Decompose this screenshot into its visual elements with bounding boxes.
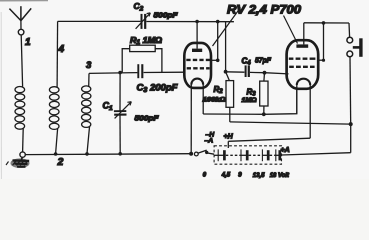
svg-text:100kΩ: 100kΩ [203, 97, 226, 104]
svg-text:4: 4 [58, 44, 65, 55]
tube V2 grid row 2 [289, 66, 314, 68]
wire grid line left segment [89, 72, 137, 75]
wire R2 to +A rail [230, 122, 351, 124]
svg-text:C4: C4 [242, 57, 252, 67]
ground [6, 157, 30, 168]
node R3 top [263, 71, 267, 75]
node C1 top [118, 71, 122, 75]
node g2 stub V2 [322, 59, 325, 62]
wire top feedback wire right of C2 [146, 21, 234, 23]
svg-text:57pF: 57pF [255, 56, 271, 65]
wire C4 junction to tube V2 grid [265, 73, 289, 74]
node g2 riser top V2 [322, 21, 326, 25]
wire +A from battery [282, 153, 351, 155]
resistor R2 100k [226, 72, 234, 122]
svg-text:RV 2,4 P700: RV 2,4 P700 [227, 3, 301, 17]
tube V1 envelope [184, 43, 211, 88]
svg-text:500pF: 500pF [154, 11, 178, 20]
terminal circle (earth terminal) [20, 152, 25, 157]
node g2 stub [216, 59, 220, 63]
wire g2 stub V2 [318, 59, 324, 61]
tube V2 filament left leg [296, 84, 298, 114]
tube V1 grid row 1 [186, 59, 210, 61]
wire +H rail to tube V2 right leg [228, 138, 310, 141]
svg-text:+H: +H [224, 134, 234, 141]
scan artifact: left edge line [0, 12, 2, 179]
tube V2 filament right leg [309, 84, 311, 138]
tube V1 anode lead [196, 22, 198, 49]
wire g2 riser to feedback wire [217, 22, 219, 61]
pointer line to tube V1 [213, 8, 241, 47]
svg-text:–A: –A [205, 138, 214, 145]
svg-text:R2: R2 [214, 85, 224, 95]
capacitor C2 variable 500pF [136, 13, 151, 29]
node R3 bottom on filament bus [262, 112, 266, 116]
wire filament bus V1 to V2 [203, 89, 297, 114]
node tube V1 leg on bus [189, 152, 193, 156]
resistor R1 1M [122, 45, 162, 72]
tube V1 filament left leg to ground bus [190, 84, 192, 154]
wire anode branch down to R2/C4 [225, 22, 227, 72]
pointer line to tube V2 [284, 16, 298, 44]
wire g2 riser V2 [323, 23, 325, 60]
wire coil3 top lead [88, 73, 90, 87]
svg-text:13,5: 13,5 [253, 173, 265, 179]
svg-text:C1: C1 [103, 101, 114, 113]
tube V2 anode bar [296, 44, 308, 47]
battery cells [214, 149, 281, 161]
wire coil4 top lead from feedback wire [56, 21, 59, 87]
wire ground bus [25, 153, 191, 156]
tube V1 filament right leg [202, 84, 204, 115]
svg-text:0: 0 [203, 172, 207, 178]
wire g2 stub tube V1 [211, 59, 218, 61]
tube V1 anode bar [192, 49, 202, 52]
tube V1 filament arch [191, 79, 203, 85]
node g2 riser top [216, 20, 220, 24]
node R2/C4 junction [224, 70, 228, 74]
svg-text:1MΩ: 1MΩ [242, 97, 257, 104]
inductor antenna coil [15, 35, 25, 152]
node anode lead on feedback wire [195, 20, 199, 24]
svg-text:9: 9 [238, 172, 242, 178]
scan artifact: top edge smudge [0, 0, 48, 2]
wire anode wire V2 to phones [304, 22, 349, 24]
headphones jack [347, 23, 361, 124]
svg-text:R1 1MΩ: R1 1MΩ [130, 36, 163, 46]
svg-text:4,5: 4,5 [221, 172, 231, 178]
svg-text:C2: C2 [134, 1, 144, 13]
wire +A riser [350, 124, 352, 153]
svg-text:2: 2 [57, 156, 64, 168]
tube V1 grid row 2 [187, 67, 210, 69]
node coil4 bottom [54, 152, 58, 156]
tube V2 grid row 1 [289, 58, 316, 60]
capacitor C4 57pF [226, 65, 265, 77]
wire top feedback wire left of C2 [58, 20, 141, 22]
tube V2 envelope [287, 40, 319, 89]
svg-text:3: 3 [86, 60, 92, 71]
tube V2 anode lead [303, 23, 305, 45]
antenna [9, 6, 31, 35]
wire grid line right segment to tube V1 [144, 71, 185, 73]
svg-text:C3 200pF: C3 200pF [137, 83, 178, 95]
node C1 bottom [118, 152, 122, 156]
inductor grid coil 3 [82, 86, 92, 154]
node coil3 bottom [85, 152, 89, 156]
switch [194, 150, 214, 156]
svg-text:500pF: 500pF [135, 114, 159, 123]
svg-text:1: 1 [25, 37, 31, 48]
svg-text:18 Volt: 18 Volt [270, 173, 290, 179]
resistor R3 1M [260, 73, 268, 115]
tube V2 filament arch [297, 79, 310, 85]
inductor feedback coil 4 [49, 87, 59, 154]
capacitor C1 variable 500pF [114, 73, 131, 154]
battery dashed box [214, 146, 281, 164]
wire +H tap [227, 141, 229, 148]
capacitor C3 200pF [138, 64, 142, 78]
node phones/+A/R2 junction [349, 122, 353, 126]
